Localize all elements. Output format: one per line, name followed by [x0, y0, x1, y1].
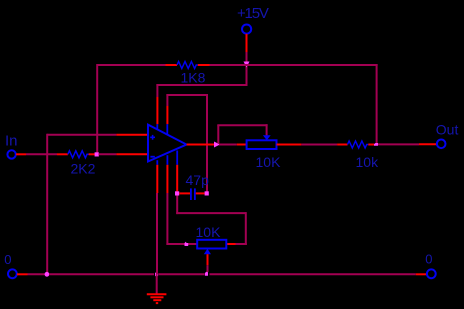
svg-text:In: In	[5, 133, 18, 150]
wire feedback y65 left of 1K8	[97, 64, 165, 66]
wire V+ horizontal y85 from x157 to x246	[156, 84, 247, 86]
wire -input crimson segment	[99, 153, 117, 155]
junction dot cap right	[205, 191, 209, 195]
resistor R1 2K2	[68, 151, 89, 158]
label 1K8	[181, 70, 206, 86]
wire red to 10k left	[337, 144, 347, 146]
svg-text:2K2: 2K2	[71, 160, 96, 176]
potentiometer VR1 10K	[247, 135, 277, 149]
wire net-D horizontal y213.1	[176, 212, 246, 214]
wire crimson junction to Out	[378, 143, 419, 145]
wire loop horizontal y125.2	[217, 124, 267, 126]
wire ground stub below rail	[156, 274, 158, 293]
wire pot VR1 right red	[277, 144, 302, 146]
wire 10k right red	[368, 144, 374, 146]
wire feedback y65 right of 1K8	[210, 64, 378, 66]
wire op-amp output red	[187, 144, 216, 146]
terminal +15V	[242, 25, 251, 34]
current arrow on +15V wire at crossing	[244, 62, 250, 68]
ground	[147, 294, 167, 303]
junction dot +input ground branch	[45, 272, 50, 277]
current arrow on output at loop junction	[214, 142, 220, 148]
wire feedback vertical x377.4	[376, 64, 378, 144]
svg-text:10k: 10k	[356, 154, 380, 170]
terminal Out	[437, 140, 446, 149]
svg-text:10K: 10K	[256, 154, 282, 170]
terminal In	[7, 150, 15, 158]
wire 0V red stub left	[17, 273, 28, 275]
potentiometer VR2 10K	[197, 240, 226, 254]
svg-text:47p: 47p	[186, 172, 210, 188]
wire 0V red stub right	[416, 273, 427, 275]
label 10K (VR1)	[256, 154, 282, 170]
wire net-D crimson below cap junction	[176, 196, 178, 215]
junction dot wiper to 0V rail	[205, 272, 208, 276]
wire VR2 wiper red down	[207, 254, 209, 265]
wire output red into pot VR1	[237, 144, 247, 146]
node +15V label	[237, 5, 269, 22]
resistor R3 10k	[348, 141, 369, 148]
node 0 left label	[4, 252, 11, 267]
wire net-C crimson down to corner	[166, 193, 168, 245]
label 47p	[186, 172, 210, 188]
svg-text:0: 0	[4, 252, 11, 267]
op-amp U1	[148, 124, 187, 165]
label 10K (VR2)	[196, 224, 222, 240]
wire V+ vertical x157 red part to op-amp top pin 1	[156, 97, 158, 124]
wire net-B vertical x167.4 red to op-amp top pin 2	[166, 106, 168, 124]
wire +input corner x47.2 horizontal crimson	[47, 134, 116, 136]
wire net-C: op-amp pin5 red down	[166, 165, 168, 193]
wire net-C horizontal y243.5 crimson	[166, 243, 197, 245]
wire 0V rail crimson right	[210, 273, 416, 275]
current arrow at ground junction	[155, 272, 158, 276]
junction dot at inverting input node	[95, 152, 99, 156]
wire net-B corner: vertical x167.4 crimson	[166, 94, 168, 106]
wire 0V rail crimson middle-left	[49, 273, 154, 275]
wire -input red segment to op-amp	[116, 153, 147, 155]
node 0 right label	[425, 251, 432, 266]
wire loop vertical x218.3	[217, 125, 219, 143]
terminal 0 left	[8, 269, 17, 278]
wire output crimson to pot lead	[219, 144, 237, 146]
label 10k	[356, 154, 380, 170]
wire op-amp V- crimson down to rail	[156, 193, 158, 274]
wire 0V rail crimson middle	[159, 273, 205, 275]
capacitor C1 47p	[179, 188, 204, 200]
wire V+ vertical x157 crimson part	[156, 84, 158, 97]
wire +15V terminal down (red stub)	[246, 34, 248, 52]
wire loop vertical x266.6 to wiper	[266, 124, 268, 135]
svg-text:Out: Out	[436, 121, 459, 137]
current arrow into VR2	[185, 242, 189, 246]
svg-text:+15V: +15V	[237, 5, 269, 22]
junction dot cap left	[175, 191, 179, 195]
current arrow at output/feedback junction	[374, 143, 378, 146]
svg-text:10K: 10K	[196, 224, 222, 240]
wire feedback vertical x97.2	[96, 64, 98, 153]
wire net-D crimson into VR2 right	[236, 243, 247, 245]
wire red stub to Out terminal	[419, 143, 437, 145]
wire R1 right red to junction	[89, 153, 95, 155]
wire net-D vertical x245.8	[245, 212, 247, 245]
wire net-B long vertical x207 down to cap	[206, 94, 208, 192]
node In label	[5, 133, 18, 150]
wire net-D red stub VR2 right	[226, 243, 235, 245]
wire In red to R1	[57, 153, 68, 155]
wire In red stub	[16, 153, 26, 155]
wire net-D: op-amp pin1 red down to cap	[176, 165, 178, 192]
resistor R2 1K8	[166, 62, 210, 69]
wire 0V crimson to junction	[28, 273, 45, 275]
wire crimson to 10k	[301, 144, 337, 146]
wire op-amp V- pin red down	[156, 165, 158, 193]
node Out label	[436, 121, 459, 137]
wire net-B horizontal y95	[166, 94, 208, 96]
wire +input red segment to op-amp	[116, 134, 147, 136]
wire +15V vertical crimson to corner y85	[246, 52, 248, 85]
terminal 0 right	[427, 269, 436, 278]
wire +input vertical x47.2 down to 0V rail	[46, 134, 48, 275]
wire VR2 wiper crimson to rail	[207, 265, 209, 272]
wire In crimson segment	[26, 153, 57, 155]
label 2K2	[71, 160, 96, 176]
svg-text:0: 0	[425, 251, 432, 266]
svg-text:1K8: 1K8	[181, 70, 206, 86]
